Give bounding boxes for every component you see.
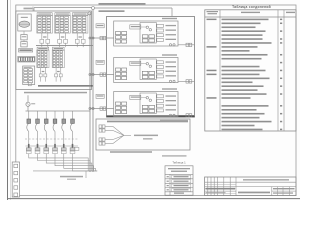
ground/source circle [26, 102, 30, 106]
breaker QF3 [44, 111, 48, 144]
module A4 [114, 54, 178, 82]
fan wire [113, 131, 124, 136]
bus wire row1 [36, 45, 93, 47]
title block [205, 177, 296, 196]
module U2 [21, 42, 27, 47]
cascade wire [55, 154, 94, 171]
cascade wire [46, 154, 92, 171]
module A5 [114, 88, 178, 116]
breaker QF4 [53, 111, 57, 144]
connector right [186, 114, 189, 117]
connector below A2 [28, 83, 31, 86]
connector [99, 129, 102, 132]
breaker QF1 [27, 111, 31, 144]
connector [99, 142, 102, 145]
wire to module left [90, 37, 114, 39]
fan wire [113, 135, 124, 143]
caption under cable box [110, 151, 152, 153]
caption bottom left [60, 176, 83, 178]
cascade wire [38, 154, 91, 171]
connector left [100, 73, 103, 76]
tag box [96, 94, 104, 98]
wire W1 top [34, 7, 92, 9]
sheet left edge [7, 0, 9, 200]
cascade wire [73, 154, 98, 171]
bus end connector [74, 147, 79, 150]
cascade bottom wire [33, 170, 97, 172]
cable label 2 [99, 10, 125, 12]
vertical bus [89, 13, 91, 172]
riser box [12, 162, 19, 197]
cabinet bottom (dark) [107, 115, 195, 117]
bundle label [134, 135, 158, 137]
caption under enclosure [24, 92, 87, 94]
bundle label 2 [143, 138, 153, 139]
terminal block XT5 [52, 47, 64, 81]
connector right [186, 80, 189, 83]
table rows [207, 19, 283, 131]
cabinet box [107, 17, 195, 118]
tag box [96, 24, 104, 28]
breaker QF6 [71, 111, 75, 144]
terminal block XT3 [72, 13, 88, 47]
wire module right [178, 44, 195, 46]
fan wire [113, 127, 124, 136]
cascade drop wire [85, 171, 87, 178]
cascade wire [64, 154, 96, 171]
svg-text:Таблица 1: Таблица 1 [172, 161, 186, 165]
connector X3 [44, 144, 49, 154]
label A1 [24, 8, 33, 10]
junction circle [88, 12, 91, 15]
fan wire [113, 135, 124, 139]
terminal block XT1 [37, 13, 53, 47]
device G1 box [18, 14, 31, 31]
device G1 ellipse [19, 21, 30, 27]
wire module right [178, 114, 195, 116]
wire to module left [90, 74, 114, 76]
caption 2 [162, 155, 187, 156]
tag box [96, 60, 104, 64]
svg-text:Таблица соединений: Таблица соединений [232, 5, 271, 9]
connector X6 [70, 144, 75, 154]
table 1 [165, 166, 193, 195]
connector bus [26, 145, 79, 147]
block A2 [23, 66, 35, 85]
header text [107, 121, 188, 123]
connector X4 [53, 144, 58, 154]
dashed link [25, 138, 79, 140]
terminal block XT4 [37, 47, 49, 81]
junction circle [92, 7, 95, 10]
breaker QF2 [36, 111, 40, 144]
sheet bottom edge [8, 198, 301, 200]
cable junction box [96, 119, 190, 150]
feed bus [26, 110, 91, 112]
connector X5 [61, 144, 66, 154]
wire to module left [90, 108, 114, 110]
label box K1 [19, 49, 33, 52]
wire W1 cont [95, 7, 173, 9]
connector [99, 138, 102, 141]
bus wire row2 (dark) [38, 85, 93, 87]
terminal strip XS1 [18, 56, 35, 62]
drawing frame [16, 5, 296, 196]
wire [27, 106, 29, 111]
terminal block XT2 [55, 13, 71, 47]
connector X1 [26, 144, 31, 154]
connector X2 [35, 144, 40, 154]
enclosure A1 [16, 11, 92, 90]
module A3 [114, 18, 178, 46]
circle label [31, 103, 35, 104]
wire module right [178, 80, 195, 82]
junction circle [89, 37, 91, 39]
caption under cabinet [160, 120, 188, 122]
cascade wire [29, 154, 88, 171]
connector left [100, 36, 103, 39]
connector right [186, 43, 189, 46]
connector left [100, 107, 103, 110]
cable label [99, 3, 146, 5]
junction circle [89, 73, 91, 75]
junction circle [89, 107, 91, 109]
module U1 [21, 35, 27, 40]
connector [99, 125, 102, 128]
breaker QF5 [62, 111, 66, 144]
